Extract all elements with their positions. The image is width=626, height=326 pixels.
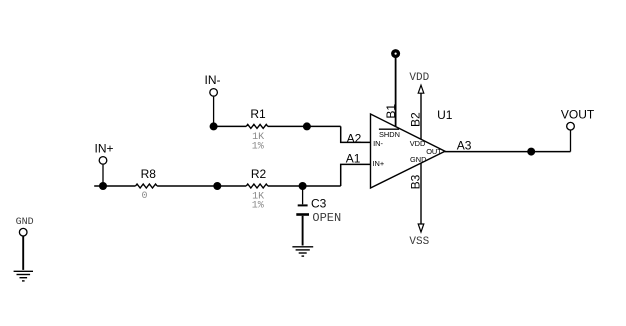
- svg-text:A1: A1: [346, 152, 361, 166]
- svg-text:VDD: VDD: [409, 72, 429, 84]
- port VOUT: [561, 107, 595, 130]
- svg-text:IN-: IN-: [205, 73, 221, 87]
- svg-text:R2: R2: [251, 167, 267, 181]
- svg-text:OUT: OUT: [426, 147, 442, 156]
- port IN+: [95, 141, 114, 164]
- wire op-amp output to VOUT: [445, 151, 571, 153]
- test point dot on B1: [391, 49, 400, 58]
- wire IN- junction to R1: [214, 125, 247, 127]
- svg-text:GND: GND: [16, 217, 34, 228]
- svg-text:IN+: IN+: [373, 159, 385, 168]
- power arrow VSS: [418, 224, 424, 232]
- wire GND port to ground: [22, 237, 24, 270]
- wire R2 to corner: [268, 185, 341, 187]
- resistor R2: [246, 184, 268, 188]
- svg-text:OPEN: OPEN: [312, 211, 341, 225]
- wire IN+ port to net: [102, 165, 104, 186]
- svg-text:0: 0: [142, 191, 148, 202]
- svg-text:A2: A2: [347, 131, 362, 145]
- wire R8 to R2: [157, 185, 246, 187]
- wire corner up to op-amp IN+: [341, 164, 371, 186]
- port IN-: [205, 73, 221, 96]
- wire IN- port to net: [213, 97, 215, 127]
- pin label SHDN (overline): [379, 129, 400, 139]
- power arrow VDD: [418, 85, 424, 93]
- svg-text:R8: R8: [141, 167, 157, 181]
- wire pin B1 (SHDN) up: [395, 58, 397, 127]
- junction on output net: [527, 148, 535, 156]
- wire IN+ junction to R8: [103, 185, 136, 187]
- capacitor C3: [296, 205, 309, 214]
- svg-text:R1: R1: [250, 107, 266, 121]
- svg-text:C3: C3: [311, 197, 327, 211]
- wire up to VOUT port: [570, 131, 572, 152]
- wire pin B3 (VSS) down: [420, 163, 422, 224]
- junction at IN-: [210, 122, 218, 130]
- wire R1 to corner: [268, 125, 341, 127]
- ground symbol at GND port: [14, 271, 33, 281]
- resistor R1: [246, 124, 268, 128]
- op-amp U1 triangle: [371, 114, 446, 188]
- junction on IN- net: [303, 122, 311, 130]
- resistor R8: [136, 184, 158, 188]
- svg-text:1%: 1%: [252, 141, 264, 152]
- junction at IN+: [99, 182, 107, 190]
- svg-text:IN+: IN+: [95, 141, 114, 155]
- svg-text:1%: 1%: [252, 201, 264, 212]
- wire stub left of IN+ junction: [94, 185, 103, 187]
- wire C3 to ground: [302, 216, 304, 246]
- svg-text:SHDN: SHDN: [379, 130, 400, 139]
- svg-text:GND: GND: [410, 155, 426, 164]
- svg-text:VDD: VDD: [410, 139, 426, 148]
- junction at C3 tap: [299, 182, 307, 190]
- wire corner down to op-amp IN-: [341, 126, 371, 142]
- svg-text:U1: U1: [437, 108, 453, 122]
- port GND: [16, 217, 34, 236]
- svg-text:IN-: IN-: [373, 139, 383, 148]
- wire junction down to C3: [302, 186, 304, 204]
- svg-text:VOUT: VOUT: [561, 107, 595, 121]
- junction after R8: [213, 182, 221, 190]
- ground symbol below C3: [292, 247, 313, 256]
- svg-text:VSS: VSS: [409, 236, 429, 248]
- svg-text:A3: A3: [457, 139, 472, 153]
- wire pin B2 (VDD) up: [420, 93, 422, 139]
